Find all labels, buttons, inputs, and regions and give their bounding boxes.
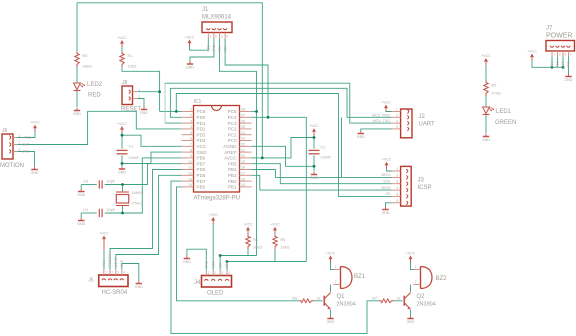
svg-text:GND: GND	[135, 285, 143, 289]
svg-text:1k: 1k	[397, 297, 401, 301]
svg-text:+VCC: +VCC	[527, 49, 537, 53]
J7 pin 4	[567, 46, 571, 48]
junction at 122,184	[121, 183, 124, 186]
svg-text:PB0: PB0	[197, 185, 206, 190]
svg-text:J1: J1	[202, 7, 209, 13]
svg-text:+VCC: +VCC	[406, 251, 416, 255]
svg-text:PB7: PB7	[197, 161, 206, 166]
ground for LED1	[482, 134, 490, 142]
buzzer BZ1	[333, 265, 352, 289]
svg-text:2N3904: 2N3904	[337, 302, 356, 308]
wire J7 pin4 to ground	[568, 57, 570, 75]
wire BZ2 pin2 to Q2 collector	[410, 285, 412, 293]
connector J3 ICSP body	[401, 166, 412, 206]
capacitor C4	[99, 209, 102, 217]
ground for J2	[357, 131, 365, 139]
svg-text:PD1: PD1	[197, 121, 206, 126]
wire C3 right lead to crystal node	[105, 184, 123, 186]
IC1 pin 24 PC1	[240, 134, 252, 136]
resistor R5	[273, 235, 277, 249]
wire J7 pin2 drop	[557, 57, 559, 68]
resistor R4	[246, 235, 250, 249]
+VCC for J3	[382, 158, 392, 169]
svg-text:Q2: Q2	[417, 294, 426, 300]
svg-text:Q1: Q1	[337, 294, 346, 300]
svg-text:J5: J5	[88, 278, 94, 284]
wire SCL net: IC1 PC5 stub link	[252, 111, 257, 113]
svg-text:+VCC: +VCC	[185, 35, 195, 39]
wire C2 bottom lead to ground	[313, 155, 315, 171]
J8 pin 1	[129, 90, 131, 94]
junction at 563,67	[562, 66, 565, 69]
ground for C2	[310, 172, 318, 180]
wire C3 left lead to ground corner	[81, 184, 97, 186]
J7 pin 1	[550, 46, 554, 48]
+VCC for J5	[99, 231, 109, 242]
svg-text:22: 22	[241, 143, 245, 147]
svg-text:J7: J7	[546, 26, 553, 32]
svg-text:100nF: 100nF	[321, 156, 332, 160]
wire LED1 to ground	[485, 116, 487, 134]
J2 pin 3	[407, 121, 409, 125]
J4 pin 1	[204, 279, 208, 281]
J1 pin 1	[206, 28, 210, 30]
svg-text:GND: GND	[31, 171, 39, 175]
IC1 pin 10 PB7	[182, 163, 194, 165]
IC1 pin 5 PD3	[182, 134, 194, 136]
J7 pin 3	[561, 46, 565, 48]
ground for J5	[135, 281, 143, 289]
svg-text:2: 2	[397, 174, 399, 178]
wire R7 to Q2 base	[394, 300, 402, 302]
svg-text:3: 3	[221, 271, 223, 275]
svg-text:8: 8	[190, 148, 192, 152]
svg-text:6: 6	[397, 199, 399, 203]
capacitor C2	[309, 150, 320, 153]
svg-text:R5: R5	[281, 238, 286, 242]
wire SDA net: IC1 PC4 across and down	[252, 117, 307, 261]
+VCC for C1	[117, 122, 127, 133]
IC1 pin 11 PD5	[182, 169, 194, 171]
svg-text:PC4: PC4	[228, 115, 237, 120]
resistor R3	[75, 52, 79, 67]
svg-text:OLED: OLED	[207, 291, 224, 297]
connector J6 MOTION body	[2, 134, 13, 159]
svg-text:1: 1	[105, 271, 107, 275]
IC1 pin 17 PB3	[240, 174, 252, 176]
ground for C4	[77, 218, 85, 226]
J6 pin 1	[9, 136, 11, 140]
crystal Q1 16MHz	[116, 192, 129, 206]
+VCC for R4	[243, 223, 253, 234]
connector J4 OLED body	[202, 276, 232, 288]
IC1 pin 20 AVCC	[240, 157, 252, 159]
svg-text:RESET: RESET	[121, 107, 141, 113]
connector J1 MLX90614 body	[202, 22, 232, 33]
svg-text:12: 12	[188, 172, 192, 176]
svg-text:15: 15	[241, 183, 245, 187]
wire C4 right lead to crystal node	[105, 212, 123, 214]
svg-text:J6: J6	[2, 128, 8, 134]
svg-text:100nF: 100nF	[129, 156, 140, 160]
svg-text:4: 4	[226, 35, 228, 39]
svg-text:C3: C3	[83, 180, 88, 184]
svg-text:4: 4	[397, 186, 399, 190]
wire +VCC to R2	[485, 65, 487, 82]
svg-text:16MHz: 16MHz	[132, 191, 144, 195]
svg-text:22pF: 22pF	[107, 180, 116, 184]
wire RESET net: J8 pin 1 to junction	[138, 91, 160, 93]
resistor R6	[299, 299, 314, 303]
svg-text:2: 2	[214, 271, 216, 275]
svg-text:14: 14	[188, 183, 192, 187]
+VCC for J7	[527, 49, 537, 60]
svg-text:LED1: LED1	[496, 109, 512, 115]
svg-text:PC6: PC6	[197, 109, 206, 114]
J5 pin 4	[120, 279, 124, 281]
svg-text:MOTION: MOTION	[0, 163, 24, 169]
svg-text:C4: C4	[83, 208, 88, 212]
wire VCC net: C1 top to IC pin 7	[122, 135, 182, 146]
svg-text:GND: GND	[407, 320, 415, 324]
+VCC for J2	[381, 100, 391, 111]
IC1 pin 9 PB6	[182, 157, 194, 159]
IC1 pin 18 PB4	[240, 169, 252, 171]
J4 pin 4	[225, 279, 229, 281]
junction at 314,138	[313, 136, 316, 139]
wire SCL net: OLED SCL row	[220, 255, 256, 257]
svg-text:GND: GND	[197, 150, 208, 155]
svg-text:HC-SR04: HC-SR04	[102, 290, 128, 296]
svg-text:1: 1	[208, 271, 210, 275]
wire C1 top lead	[121, 135, 123, 149]
+VCC for AVCC	[309, 124, 319, 135]
ground for J7	[565, 74, 573, 82]
svg-text:3: 3	[19, 148, 21, 152]
ground for Q1	[327, 316, 335, 324]
wire J4 pin1 to ground	[187, 249, 206, 270]
svg-text:3: 3	[397, 180, 399, 184]
resistor R1	[120, 52, 124, 67]
wire AVCC net: IC pin 20 to C2 top	[252, 138, 315, 158]
svg-text:9: 9	[190, 154, 192, 158]
svg-text:2N3904: 2N3904	[417, 302, 436, 308]
svg-text:10kΩ: 10kΩ	[281, 246, 290, 250]
svg-text:26: 26	[241, 119, 245, 123]
svg-text:16: 16	[241, 177, 245, 181]
transistor Q2 2N3904	[404, 293, 410, 310]
IC1 pin 13 PD7	[182, 180, 194, 182]
svg-text:5: 5	[397, 193, 399, 197]
wire J7 pin3 drop	[562, 57, 564, 68]
wire R5 upper lead	[274, 234, 276, 236]
ground for J8	[140, 107, 148, 115]
svg-text:1: 1	[397, 167, 399, 171]
svg-text:PB6: PB6	[197, 156, 206, 161]
J4 pin 2	[211, 279, 215, 281]
wire J7 pin1 drop	[551, 57, 553, 68]
svg-text:330Ω: 330Ω	[83, 65, 92, 69]
svg-text:+VCC: +VCC	[481, 54, 491, 58]
wire +VCC to C2 top lead	[313, 135, 315, 149]
svg-text:R2: R2	[492, 84, 497, 88]
IC1 pin 2 PD0	[182, 116, 194, 118]
svg-text:ECHO: ECHO	[114, 257, 118, 267]
svg-text:4: 4	[123, 271, 125, 275]
svg-text:BZ1: BZ1	[354, 274, 366, 280]
svg-text:GND: GND	[73, 112, 81, 116]
junction at 160,92	[158, 90, 161, 93]
wire C3 ground drop	[80, 185, 82, 190]
svg-text:MCU_RXD: MCU_RXD	[372, 113, 390, 117]
buzzer BZ2	[413, 265, 432, 289]
J3 pin 1	[406, 169, 408, 173]
J4 pin 3	[218, 279, 222, 281]
J2 pin 4	[407, 127, 409, 131]
svg-text:GND: GND	[567, 60, 571, 68]
svg-text:3: 3	[396, 119, 398, 123]
+VCC for BZ1	[326, 251, 336, 262]
svg-text:J4: J4	[194, 280, 201, 286]
svg-text:GND: GND	[310, 176, 318, 180]
svg-text:7: 7	[190, 143, 192, 147]
wire RESET net: R1 to IC pin 1 column	[122, 67, 160, 111]
wire +VCC to C1 top	[121, 131, 123, 135]
svg-text:R7: R7	[372, 297, 377, 301]
IC1 pin 26 PC3	[240, 122, 252, 124]
svg-text:PC1: PC1	[228, 132, 237, 137]
svg-text:2: 2	[111, 271, 113, 275]
svg-text:SDA: SDA	[225, 261, 229, 268]
junction at 122,164	[121, 162, 124, 165]
svg-text:C2: C2	[321, 146, 326, 150]
svg-text:OUT: OUT	[22, 143, 29, 147]
ground for J4	[183, 256, 191, 264]
svg-text:GND: GND	[120, 259, 124, 267]
IC1 pin 7 VCC	[182, 145, 194, 147]
svg-text:17: 17	[241, 172, 245, 176]
svg-text:PB4: PB4	[228, 167, 237, 172]
svg-text:VCC: VCC	[561, 61, 565, 68]
svg-text:20: 20	[241, 154, 245, 158]
wire MCU_TXD net: top run to J2 pin 3	[165, 83, 392, 123]
ground for LED2	[73, 108, 81, 116]
wire J6 pin1 to +VCC	[18, 130, 36, 138]
svg-text:2: 2	[335, 280, 337, 284]
svg-text:PD3: PD3	[197, 132, 206, 137]
wire Q1 emitter to ground	[330, 310, 332, 316]
wire crystal bottom lead	[122, 206, 124, 213]
IC1 pin 8 GND	[182, 151, 194, 153]
svg-text:GND: GND	[212, 44, 216, 52]
wire R4 upper lead	[247, 234, 249, 236]
wire XTAL2 net: crystal bottom to PB6	[123, 158, 182, 213]
connector J2 UART body	[401, 109, 412, 138]
svg-text:1: 1	[190, 108, 192, 112]
svg-text:GND: GND	[565, 78, 573, 82]
svg-text:PC5: PC5	[228, 109, 237, 114]
svg-text:25: 25	[241, 125, 245, 129]
svg-text:2: 2	[559, 53, 561, 57]
wire J6 pin3 to ground	[18, 152, 35, 168]
svg-text:TRIGGER: TRIGGER	[108, 252, 112, 267]
svg-text:UART: UART	[419, 122, 436, 128]
svg-text:1: 1	[415, 265, 417, 269]
IC1 pin 16 PB2	[240, 180, 252, 182]
svg-text:PB5: PB5	[228, 161, 237, 166]
svg-text:AGND: AGND	[223, 144, 237, 149]
wire R6 to Q1 base	[314, 300, 322, 302]
transistor Q1 2N3904	[324, 293, 330, 310]
svg-text:1: 1	[553, 53, 555, 57]
J3 pin 5	[406, 195, 408, 199]
svg-text:GND: GND	[140, 111, 148, 115]
svg-text:ATmega328P-PU: ATmega328P-PU	[194, 196, 241, 202]
svg-text:1: 1	[396, 108, 398, 112]
svg-text:+VCC: +VCC	[99, 231, 109, 235]
svg-text:+VCC: +VCC	[22, 136, 32, 140]
wire R2 to LED1	[485, 96, 487, 107]
svg-text:2: 2	[396, 114, 398, 118]
wire LED2 cathode to ground	[76, 91, 78, 108]
IC1 pin 1 PC6	[182, 111, 194, 113]
IC1 pin 21 AREF	[240, 151, 252, 153]
svg-text:XTAL1: XTAL1	[132, 202, 143, 206]
svg-text:SS: SS	[386, 192, 391, 196]
svg-text:+VCC: +VCC	[326, 251, 336, 255]
svg-text:ICSP: ICSP	[418, 185, 432, 191]
svg-text:PC2: PC2	[228, 127, 237, 132]
svg-text:GND: GND	[22, 150, 30, 154]
svg-text:PB2: PB2	[228, 179, 237, 184]
wire PD7 net: IC to R7	[171, 181, 379, 334]
wire J2 pin1 to +VCC	[386, 110, 392, 112]
LED LED1	[483, 107, 494, 115]
J3 pin 2	[406, 176, 408, 180]
svg-text:PD4: PD4	[197, 138, 206, 143]
+VCC for J4	[208, 213, 218, 224]
svg-text:28: 28	[241, 108, 245, 112]
IC1 pin 4 PD2	[182, 128, 194, 130]
svg-text:1: 1	[19, 134, 21, 138]
svg-text:VCC: VCC	[197, 144, 207, 149]
svg-text:23: 23	[241, 137, 245, 141]
wire +VCC to R1	[121, 47, 123, 53]
svg-text:4: 4	[190, 125, 192, 129]
svg-text:GND: GND	[327, 320, 335, 324]
wire MCU_TXD net: PD1 stub link	[165, 122, 182, 124]
svg-text:+VCC: +VCC	[382, 158, 392, 162]
wire SDA net: OLED SDA row	[227, 261, 306, 263]
svg-text:PD5: PD5	[197, 167, 206, 172]
svg-text:19: 19	[241, 160, 245, 164]
svg-text:5: 5	[190, 131, 192, 135]
svg-text:VCC: VCC	[102, 260, 106, 267]
svg-text:PC0: PC0	[228, 138, 237, 143]
wire BZ1 pin1 to +VCC	[331, 262, 334, 270]
svg-text:+VCC: +VCC	[270, 223, 280, 227]
svg-text:C1: C1	[129, 145, 134, 149]
svg-text:22pF: 22pF	[107, 208, 116, 212]
wire R3 to LED2	[76, 67, 78, 83]
connector J7 POWER body	[546, 41, 575, 52]
svg-text:1: 1	[210, 35, 212, 39]
wire MISO net riser	[341, 117, 343, 177]
svg-text:3: 3	[190, 119, 192, 123]
IC ATmega328P IC1 body	[194, 106, 240, 193]
svg-text:3: 3	[221, 35, 223, 39]
svg-text:J2: J2	[419, 114, 426, 120]
svg-text:6: 6	[190, 137, 192, 141]
ground for J3	[382, 207, 390, 215]
svg-text:SDA: SDA	[223, 45, 227, 52]
svg-text:IC1: IC1	[194, 99, 202, 105]
svg-text:PD0: PD0	[197, 115, 206, 120]
wire C4 left lead	[81, 212, 97, 214]
svg-text:10: 10	[188, 160, 192, 164]
J1 pin 4	[223, 28, 227, 30]
IC1 pin 22 AGND	[240, 145, 252, 147]
svg-text:1: 1	[335, 265, 337, 269]
wire PB0 net: IC to R6	[177, 187, 300, 301]
svg-text:MCU_TXD: MCU_TXD	[373, 119, 391, 123]
wire J1 pin1 to +VCC	[190, 39, 209, 51]
IC1 pin 12 PD6	[182, 174, 194, 176]
resistor R7	[379, 299, 394, 303]
wire LED2 anode to rail	[76, 3, 78, 52]
svg-text:3: 3	[117, 271, 119, 275]
wire +VCC net: LED2 top rail to AVCC column	[77, 3, 262, 158]
+VCC for BZ2	[406, 251, 416, 262]
svg-text:GREEN: GREEN	[495, 120, 516, 126]
junction at 220,256	[219, 254, 222, 257]
svg-text:+VCC: +VCC	[309, 124, 319, 128]
svg-text:VCC: VCC	[207, 45, 211, 52]
svg-text:1k: 1k	[317, 297, 321, 301]
wire J5 pin4 to ground	[122, 264, 139, 282]
svg-text:R6: R6	[292, 297, 297, 301]
wire J3 pin6 to ground	[386, 203, 392, 208]
wire J4 pin3 to SCL row	[219, 256, 221, 271]
svg-text:AVCC: AVCC	[224, 156, 237, 161]
wire MOSI net: PB3 to ICSP pin 4	[252, 175, 392, 190]
junction at 268,117	[267, 116, 270, 119]
svg-text:VCC: VCC	[550, 61, 554, 68]
ground for J1	[186, 62, 194, 70]
wire J7 supply rail	[532, 60, 563, 67]
svg-text:GND: GND	[205, 260, 209, 268]
svg-text:PD7: PD7	[197, 179, 206, 184]
wire SCL net: MLX90614 SCL down to OLED row	[220, 39, 257, 256]
capacitor C3	[99, 180, 102, 188]
ground for Q2	[407, 316, 415, 324]
IC1 pin 15 PB1	[240, 186, 252, 188]
wire XTAL1 net: crystal top to PB7	[123, 164, 182, 185]
wire J4 pin4 to SDA row	[226, 262, 228, 271]
wire J1 pin2 to ground	[190, 39, 214, 62]
svg-text:PD2: PD2	[197, 127, 206, 132]
+VCC for LED1	[481, 54, 491, 65]
svg-text:SCK: SCK	[383, 180, 391, 184]
svg-text:MLX90614: MLX90614	[202, 15, 232, 21]
wire MOTION OUT net: J6 pin 2 to PD2	[18, 111, 182, 144]
svg-text:AREF: AREF	[224, 150, 236, 155]
svg-text:RED: RED	[88, 93, 101, 99]
J3 pin 6	[406, 201, 408, 205]
svg-text:470Ω: 470Ω	[492, 92, 501, 96]
wire J3 pin1 to +VCC	[387, 167, 392, 171]
wire TRIGGER net: PD5 to J5 pin 2	[110, 170, 182, 270]
